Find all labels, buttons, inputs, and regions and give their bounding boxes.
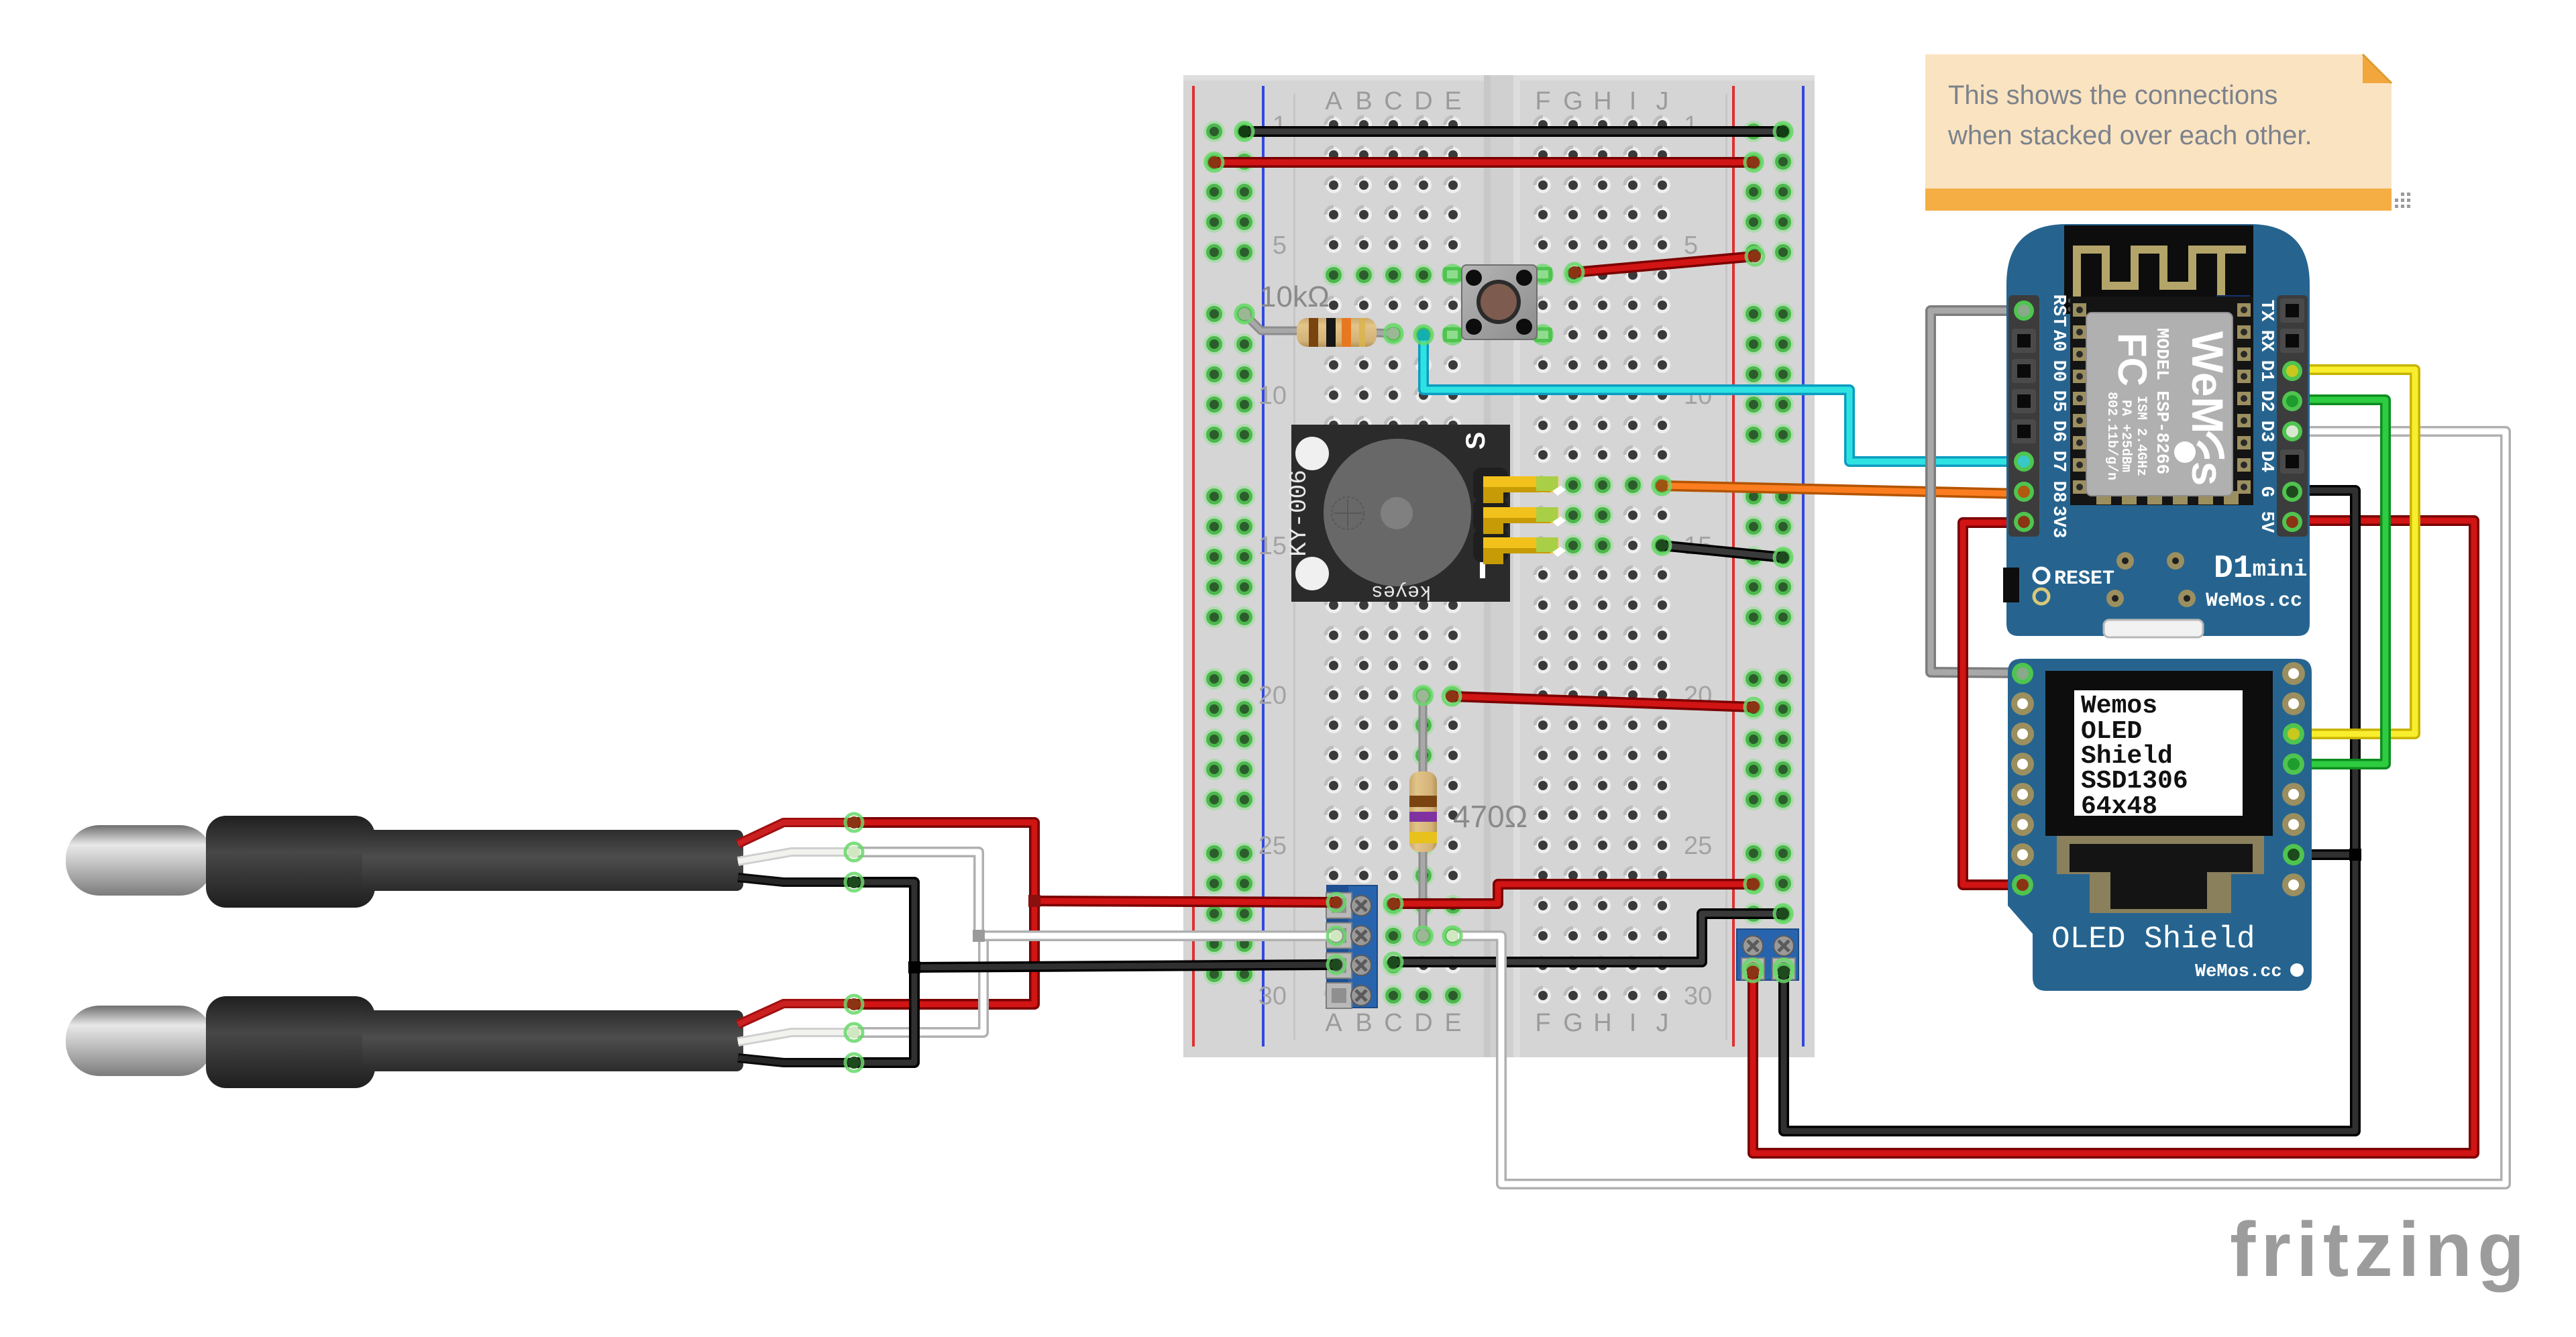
wire net white probes to A28 [854,852,983,1032]
screw terminal J1 4-pin [1327,886,1377,1008]
sticky note [1925,54,2392,211]
resistor R1 10kOhm [1244,314,1298,331]
svg-text:C: C [1384,1009,1402,1037]
svg-text:fritzing: fritzing [2230,1207,2530,1293]
wire net black probes to A29 [854,882,914,1063]
svg-text:RESET: RESET [2054,568,2114,590]
svg-text:J: J [1656,1009,1669,1037]
svg-text:5: 5 [1273,231,1287,260]
wire W12 black GND loop terminal J2 to pin G and OLED pin7 [1784,490,2355,1131]
wire W1 black top rail-to-rail [1244,126,1783,137]
wire black lead probe P2 [738,1058,852,1063]
svg-text:D2: D2 [2256,390,2276,412]
svg-text:G: G [1563,87,1583,115]
svg-text:C: C [1384,87,1402,115]
svg-text:TX: TX [2256,300,2276,322]
svg-text:E: E [1444,87,1461,115]
svg-text:30: 30 [1258,982,1287,1010]
svg-text:25: 25 [1258,832,1287,860]
svg-text:5V: 5V [2256,511,2276,533]
svg-text:H: H [1593,87,1611,115]
wire red lead probe P2 [738,1004,852,1024]
screw terminal J2 2-pin [1737,929,1799,980]
svg-text:S: S [1461,432,1491,450]
svg-text:RX: RX [2256,330,2276,352]
WeMos D1 mini U1 [2006,224,2310,636]
svg-text:D1: D1 [2256,360,2276,382]
svg-text:WeMos.cc: WeMos.cc [2195,962,2282,982]
svg-text:30: 30 [1684,982,1712,1010]
wire W9 black C29 to - rail [1393,914,1783,962]
svg-text:D7: D7 [2048,451,2068,472]
svg-text:D6: D6 [2048,421,2068,442]
svg-text:802.11b/g/n: 802.11b/g/n [2104,392,2119,480]
wire W3 red G6 to + rail [1574,256,1755,272]
OLED shield U2 [2008,659,2312,991]
svg-text:470Ω: 470Ω [1453,799,1527,834]
svg-text:I: I [1629,87,1637,115]
svg-text:25: 25 [1684,832,1712,860]
wire W15 gray pin RST to OLED pin1 [1931,311,2021,673]
svg-text:WeMos.cc: WeMos.cc [2206,590,2302,612]
svg-text:This shows the connections: This shows the connections [1948,81,2277,110]
svg-text:Wemos: Wemos [2081,692,2157,720]
wire red lead probe P1 [738,822,852,844]
svg-text:WeM: WeM [2183,331,2233,434]
svg-text:3V3: 3V3 [2048,506,2068,539]
temperature probe P2 DS18B20 [66,1006,213,1076]
buzzer module KY-006 [1291,425,1510,602]
svg-text:s: s [2183,462,2233,486]
svg-text:D3: D3 [2256,421,2276,442]
svg-text:RST: RST [2048,295,2068,327]
svg-text:15: 15 [1258,532,1287,560]
wire black lead probe P1 [738,877,852,882]
svg-text:KY-006: KY-006 [1285,470,1313,557]
svg-text:ISM 2.4GHz: ISM 2.4GHz [2133,396,2149,476]
svg-text:10kΩ: 10kΩ [1260,280,1330,313]
wire W14 green pin D2 to OLED pin4 [2303,400,2385,764]
svg-text:5: 5 [1684,231,1698,260]
svg-text:I: I [1629,1009,1637,1037]
wire W2 red top rail-to-rail [1214,157,1754,168]
svg-text:H: H [1593,1009,1611,1037]
svg-text:D8: D8 [2048,481,2068,502]
temperature probe P1 DS18B20 [66,825,213,896]
svg-text:D: D [1414,87,1432,115]
svg-text:D0: D0 [2048,360,2068,382]
svg-text:OLED Shield: OLED Shield [2051,922,2255,957]
svg-text:when stacked over each other.: when stacked over each other. [1947,121,2312,150]
svg-text:J: J [1656,87,1669,115]
svg-text:64x48: 64x48 [2081,792,2157,821]
svg-text:A: A [1325,1009,1342,1037]
svg-text:D: D [1414,1009,1432,1037]
wire W13 yellow pin D1 to OLED pin3 [2303,370,2415,734]
resistor R2 470Ohm [1419,696,1428,936]
wire W4 cyan D8 to pin D7 [1424,335,2021,462]
svg-text:10: 10 [1258,382,1287,410]
wire W8 red C27 to + rail [1393,884,1754,904]
wire W5 orange J13 to pin D8 [1662,486,2021,494]
wire W7 red E20 to + rail [1452,696,1754,707]
svg-text:20: 20 [1258,682,1287,710]
wire W11 red 5V loop to terminal J2 [1753,521,2474,1153]
svg-text:D5: D5 [2048,390,2068,412]
pushbutton S1 [1442,264,1463,285]
svg-text:keyes: keyes [1371,580,1432,602]
svg-text:FC: FC [2110,333,2155,386]
svg-text:PA +25dBm: PA +25dBm [2118,400,2133,472]
svg-text:SSD1306: SSD1306 [2081,767,2188,796]
svg-text:D4: D4 [2256,451,2276,472]
svg-text:MODEL ESP-8266: MODEL ESP-8266 [2152,328,2172,474]
wire W16 red pin 3V3 to OLED pin8 [1963,523,2021,885]
wire W6 black J15 to - rail [1662,545,1783,557]
svg-text:B: B [1355,87,1372,115]
breadboard [1183,75,1815,1057]
svg-text:A0: A0 [2048,330,2068,352]
svg-text:F: F [1535,87,1550,115]
svg-text:A: A [1325,87,1342,115]
svg-text:G: G [1563,1009,1583,1037]
wire W10 white E28 loop to pin D3 [1452,431,2506,1184]
svg-text:B: B [1355,1009,1372,1037]
svg-text:G: G [2256,486,2276,497]
svg-text:E: E [1444,1009,1461,1037]
wire white lead probe P1 [738,852,852,861]
wire white lead probe P2 [738,1032,852,1042]
wire net red probes to A27 [854,822,1034,1004]
svg-text:F: F [1535,1009,1550,1037]
